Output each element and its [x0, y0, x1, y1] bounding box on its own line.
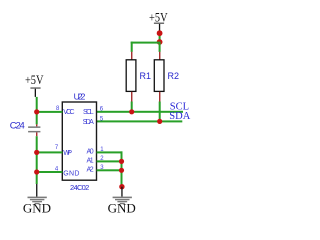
svg-text:GND: GND [63, 170, 79, 177]
node dot VCC tee [34, 109, 39, 114]
node dot A2 [119, 168, 124, 173]
svg-text:R1: R1 [140, 71, 152, 81]
svg-text:24C02: 24C02 [70, 183, 89, 192]
node dot R2 to SDA [157, 119, 162, 124]
svg-text:GND: GND [23, 201, 51, 216]
svg-text:+5V: +5V [25, 73, 44, 87]
wire left rail lower [36, 136, 38, 184]
op IC U22 box [62, 102, 96, 180]
svg-text:C24: C24 [10, 120, 25, 131]
capacitor C24 [10, 120, 41, 136]
node dot above ground [119, 184, 124, 189]
svg-text:A2: A2 [87, 166, 94, 173]
ground middle [108, 187, 136, 216]
node dot tee junction [157, 39, 163, 45]
wire net SCL [97, 111, 183, 113]
ground left [23, 184, 51, 216]
svg-text:SDA: SDA [83, 119, 95, 126]
svg-text:7: 7 [55, 145, 59, 151]
svg-text:WP: WP [63, 150, 72, 157]
wire pin7 WP [36, 151, 62, 153]
wire pin1 A0 [97, 151, 123, 153]
svg-text:SCL: SCL [83, 109, 94, 116]
wire from +5V to junction [159, 31, 161, 43]
svg-text:U22: U22 [74, 92, 86, 102]
resistor R1 [126, 52, 151, 113]
wire pin2 A1 [97, 160, 123, 162]
svg-text:VCC: VCC [63, 109, 74, 116]
node dot below +5V [157, 30, 163, 36]
svg-text:SDA: SDA [169, 111, 190, 122]
node dot R1 to SCL [129, 109, 134, 114]
svg-text:R2: R2 [168, 71, 180, 81]
svg-text:A0: A0 [87, 149, 94, 156]
node dot WP tee [34, 150, 39, 155]
resistor R2 [154, 52, 179, 123]
wire horizontal top to R1 [131, 42, 161, 44]
wire pin4 GND [36, 171, 62, 173]
power +5V top right [149, 11, 168, 32]
wire left rail upper [36, 97, 38, 125]
wire drop to R2 top [159, 44, 161, 52]
wire net SDA [97, 120, 183, 122]
wire A0-A1-A2 vertical to ground [121, 151, 123, 186]
node dot GND pin tee [34, 169, 39, 174]
svg-text:GND: GND [108, 201, 136, 216]
wire pin8 VCC [36, 111, 62, 113]
wire pin3 A2 [97, 169, 123, 171]
svg-text:A1: A1 [87, 158, 94, 165]
power +5V top left [25, 73, 44, 97]
wire drop to R1 top [131, 42, 133, 52]
node dot A1 [119, 159, 124, 164]
